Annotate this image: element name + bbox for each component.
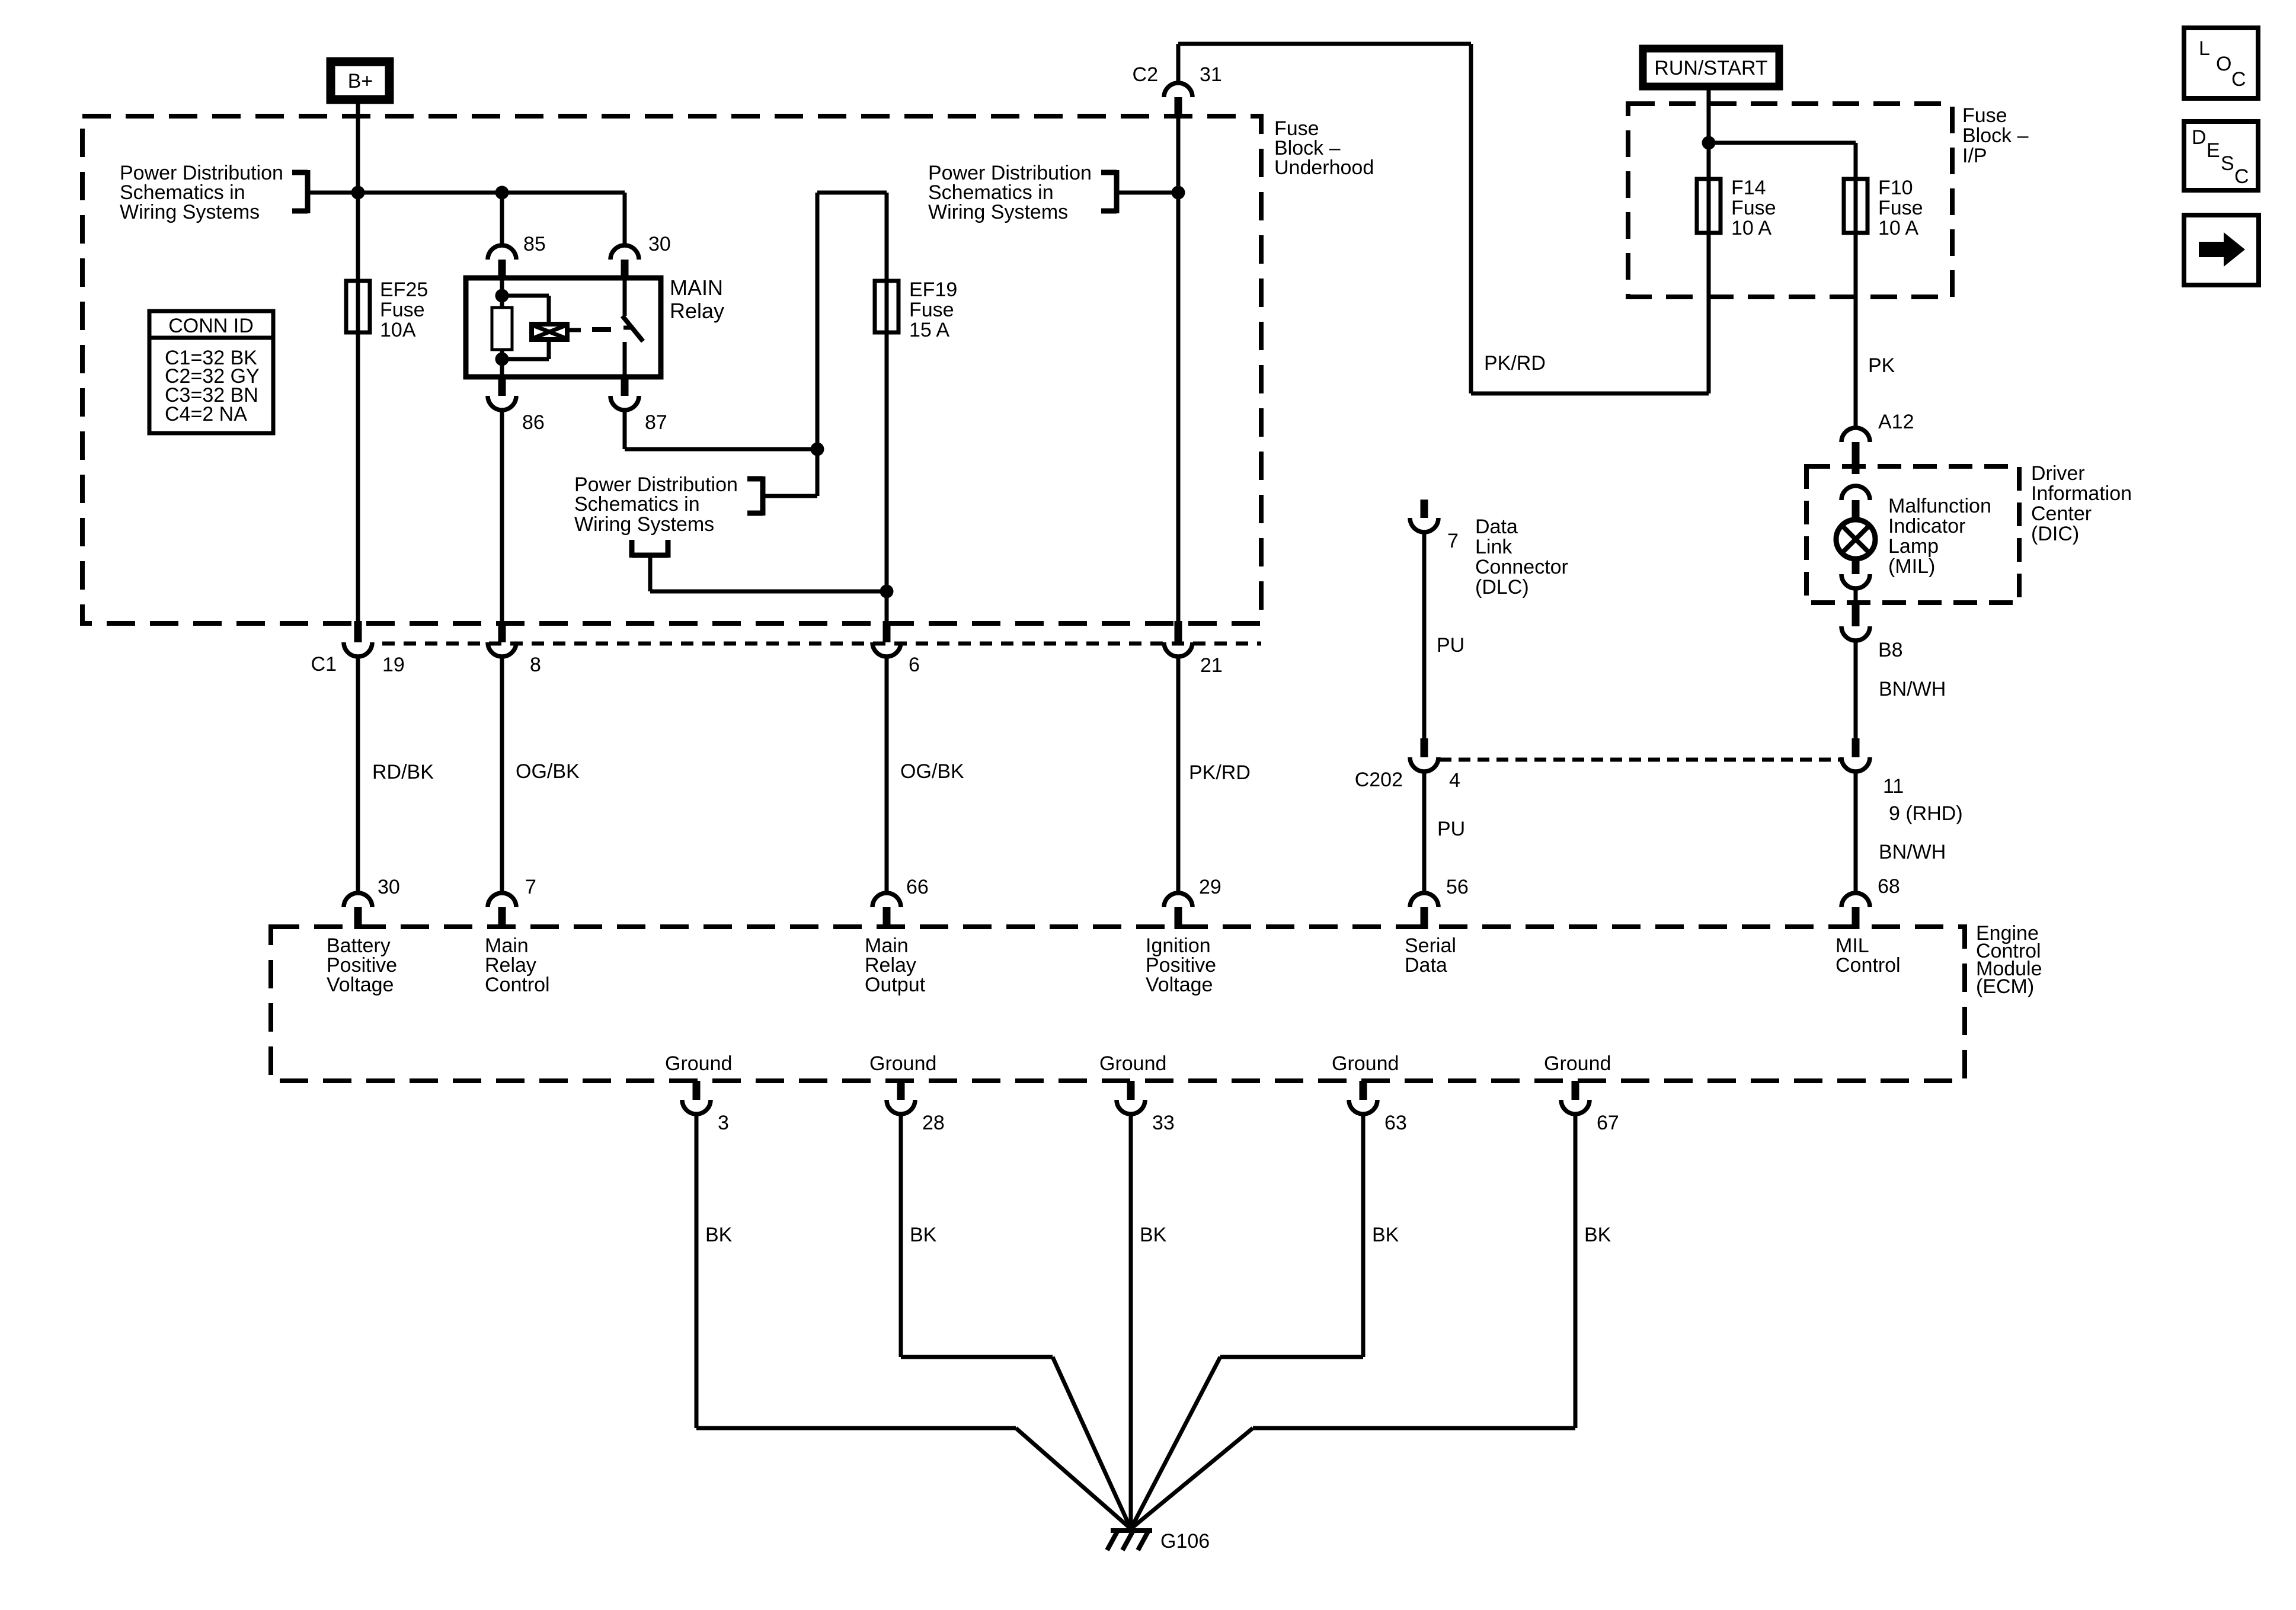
svg-text:4: 4 bbox=[1449, 769, 1460, 792]
svg-text:PK: PK bbox=[1868, 354, 1895, 377]
svg-text:(ECM): (ECM) bbox=[1976, 975, 2034, 998]
svg-text:10 A: 10 A bbox=[1878, 217, 1918, 239]
svg-text:11: 11 bbox=[1883, 775, 1904, 798]
svg-text:Control: Control bbox=[485, 974, 550, 996]
svg-text:Link: Link bbox=[1475, 536, 1512, 558]
svg-text:3: 3 bbox=[718, 1112, 729, 1134]
svg-text:BN/WH: BN/WH bbox=[1879, 678, 1946, 700]
svg-text:G106: G106 bbox=[1160, 1530, 1210, 1553]
svg-text:B+: B+ bbox=[348, 70, 373, 92]
svg-text:7: 7 bbox=[525, 876, 536, 898]
svg-text:BN/WH: BN/WH bbox=[1879, 841, 1946, 863]
svg-text:86: 86 bbox=[522, 411, 545, 434]
svg-text:S: S bbox=[2221, 152, 2234, 175]
svg-text:F14: F14 bbox=[1731, 177, 1766, 199]
svg-text:C202: C202 bbox=[1355, 769, 1403, 791]
svg-text:OG/BK: OG/BK bbox=[516, 760, 580, 783]
svg-text:8: 8 bbox=[530, 654, 541, 676]
svg-text:Ground: Ground bbox=[869, 1052, 936, 1075]
svg-text:BK: BK bbox=[1140, 1224, 1167, 1246]
svg-text:Data: Data bbox=[1475, 516, 1518, 538]
svg-text:BK: BK bbox=[1584, 1224, 1611, 1246]
svg-text:A12: A12 bbox=[1878, 411, 1914, 433]
svg-text:30: 30 bbox=[648, 233, 671, 255]
svg-text:Ground: Ground bbox=[1332, 1052, 1399, 1075]
svg-text:PK/RD: PK/RD bbox=[1484, 352, 1546, 375]
svg-text:BK: BK bbox=[1372, 1224, 1399, 1246]
svg-text:21: 21 bbox=[1200, 654, 1223, 677]
svg-text:C4=2 NA: C4=2 NA bbox=[165, 403, 247, 425]
svg-text:19: 19 bbox=[382, 654, 405, 676]
svg-text:Relay: Relay bbox=[670, 299, 724, 323]
svg-text:Voltage: Voltage bbox=[327, 974, 394, 996]
svg-text:Fuse: Fuse bbox=[380, 299, 425, 321]
svg-text:RD/BK: RD/BK bbox=[372, 761, 434, 783]
svg-text:Malfunction: Malfunction bbox=[1888, 495, 1991, 517]
svg-text:67: 67 bbox=[1597, 1112, 1619, 1134]
svg-text:Wiring Systems: Wiring Systems bbox=[928, 201, 1068, 223]
svg-text:68: 68 bbox=[1878, 875, 1900, 898]
svg-text:(MIL): (MIL) bbox=[1888, 555, 1935, 578]
svg-text:I/P: I/P bbox=[1962, 145, 1987, 167]
svg-text:Driver: Driver bbox=[2031, 462, 2085, 485]
svg-text:L: L bbox=[2199, 37, 2210, 60]
svg-text:F10: F10 bbox=[1878, 177, 1913, 199]
svg-text:Control: Control bbox=[1835, 954, 1901, 977]
svg-text:10A: 10A bbox=[380, 319, 416, 341]
svg-text:B8: B8 bbox=[1878, 639, 1903, 661]
svg-text:C1: C1 bbox=[311, 653, 337, 676]
svg-text:9 (RHD): 9 (RHD) bbox=[1889, 802, 1963, 825]
svg-text:D: D bbox=[2192, 126, 2207, 149]
svg-text:Ground: Ground bbox=[1544, 1052, 1611, 1075]
svg-text:Data: Data bbox=[1405, 954, 1447, 977]
svg-text:28: 28 bbox=[922, 1112, 945, 1134]
svg-text:6: 6 bbox=[909, 654, 920, 676]
svg-text:OG/BK: OG/BK bbox=[900, 760, 964, 783]
svg-text:Ground: Ground bbox=[665, 1052, 732, 1075]
svg-text:C: C bbox=[2231, 68, 2246, 91]
svg-text:C2: C2 bbox=[1133, 63, 1158, 86]
svg-text:Schematics in: Schematics in bbox=[574, 493, 700, 516]
svg-text:10 A: 10 A bbox=[1731, 217, 1771, 239]
svg-text:PU: PU bbox=[1437, 818, 1465, 840]
svg-text:7: 7 bbox=[1447, 530, 1459, 552]
svg-text:O: O bbox=[2216, 53, 2231, 75]
svg-text:Block –: Block – bbox=[1962, 124, 2029, 147]
svg-text:87: 87 bbox=[645, 411, 667, 434]
svg-text:Information: Information bbox=[2031, 482, 2132, 505]
svg-text:(DLC): (DLC) bbox=[1475, 576, 1529, 598]
svg-text:Wiring Systems: Wiring Systems bbox=[574, 513, 714, 536]
svg-text:E: E bbox=[2207, 139, 2220, 162]
svg-text:Fuse: Fuse bbox=[1962, 104, 2007, 127]
svg-text:Connector: Connector bbox=[1475, 556, 1568, 578]
svg-text:RUN/START: RUN/START bbox=[1654, 57, 1767, 79]
svg-text:C: C bbox=[2234, 165, 2249, 188]
svg-text:29: 29 bbox=[1199, 876, 1221, 898]
svg-text:31: 31 bbox=[1200, 63, 1222, 86]
svg-text:Voltage: Voltage bbox=[1146, 974, 1213, 996]
svg-text:15 A: 15 A bbox=[909, 319, 949, 341]
svg-text:Underhood: Underhood bbox=[1274, 156, 1374, 179]
svg-text:PU: PU bbox=[1437, 634, 1464, 657]
svg-text:Indicator: Indicator bbox=[1888, 515, 1965, 537]
svg-text:EF19: EF19 bbox=[909, 279, 957, 301]
svg-text:(DIC): (DIC) bbox=[2031, 523, 2079, 545]
svg-text:EF25: EF25 bbox=[380, 279, 428, 301]
svg-text:MAIN: MAIN bbox=[670, 276, 723, 300]
svg-text:85: 85 bbox=[523, 233, 546, 255]
svg-text:66: 66 bbox=[906, 876, 929, 898]
svg-text:Fuse: Fuse bbox=[1878, 197, 1923, 219]
svg-text:Ground: Ground bbox=[1099, 1052, 1166, 1075]
svg-text:BK: BK bbox=[705, 1224, 733, 1246]
svg-text:Center: Center bbox=[2031, 502, 2092, 525]
svg-text:BK: BK bbox=[910, 1224, 937, 1246]
svg-text:Fuse: Fuse bbox=[909, 299, 954, 321]
svg-text:56: 56 bbox=[1446, 876, 1469, 898]
svg-text:33: 33 bbox=[1152, 1112, 1175, 1134]
svg-text:Fuse: Fuse bbox=[1731, 197, 1776, 219]
svg-text:PK/RD: PK/RD bbox=[1189, 761, 1251, 784]
svg-text:Output: Output bbox=[865, 974, 926, 996]
svg-text:Wiring Systems: Wiring Systems bbox=[120, 201, 260, 223]
svg-text:30: 30 bbox=[378, 876, 400, 898]
svg-text:CONN ID: CONN ID bbox=[168, 315, 254, 337]
svg-text:Lamp: Lamp bbox=[1888, 535, 1939, 558]
svg-text:63: 63 bbox=[1384, 1112, 1407, 1134]
